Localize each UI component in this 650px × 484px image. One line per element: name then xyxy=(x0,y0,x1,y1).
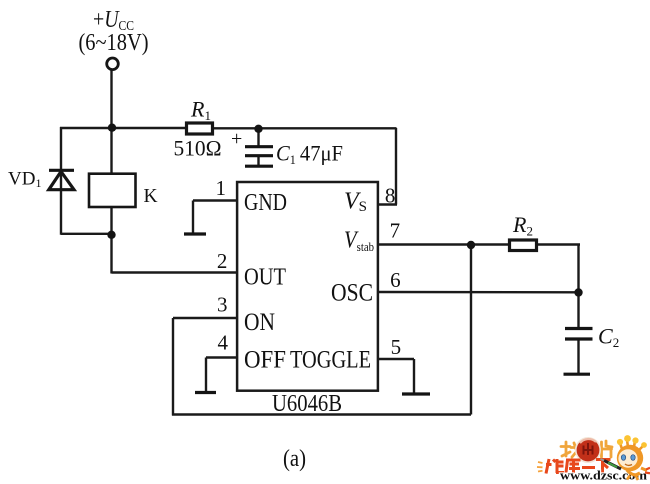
svg-text:1: 1 xyxy=(215,176,226,200)
svg-text:OUT: OUT xyxy=(244,265,286,291)
svg-text:C2: C2 xyxy=(598,324,619,351)
svg-text:4: 4 xyxy=(217,331,228,355)
svg-text:OSC: OSC xyxy=(331,280,373,307)
svg-text:2: 2 xyxy=(217,249,228,273)
svg-text:C1 47μF: C1 47μF xyxy=(276,141,343,168)
svg-text:3: 3 xyxy=(217,292,228,316)
svg-text:7: 7 xyxy=(390,219,401,243)
svg-text:5: 5 xyxy=(391,335,402,359)
svg-text:U6046B: U6046B xyxy=(272,391,342,417)
svg-text:(a): (a) xyxy=(283,446,306,472)
svg-text:K: K xyxy=(144,186,158,207)
svg-text:(6~18V): (6~18V) xyxy=(79,30,149,56)
svg-text:R1: R1 xyxy=(190,97,211,124)
svg-text:8: 8 xyxy=(385,184,396,208)
svg-text:VD1: VD1 xyxy=(8,169,41,191)
svg-text:ON: ON xyxy=(244,309,275,336)
svg-text:TOGGLE: TOGGLE xyxy=(290,347,371,374)
svg-text:GND: GND xyxy=(244,190,287,216)
svg-text:6: 6 xyxy=(390,268,401,292)
svg-text:510Ω: 510Ω xyxy=(174,136,222,161)
svg-text:OFF: OFF xyxy=(244,347,286,374)
svg-text:R2: R2 xyxy=(512,212,533,239)
svg-text:+: + xyxy=(231,128,242,150)
